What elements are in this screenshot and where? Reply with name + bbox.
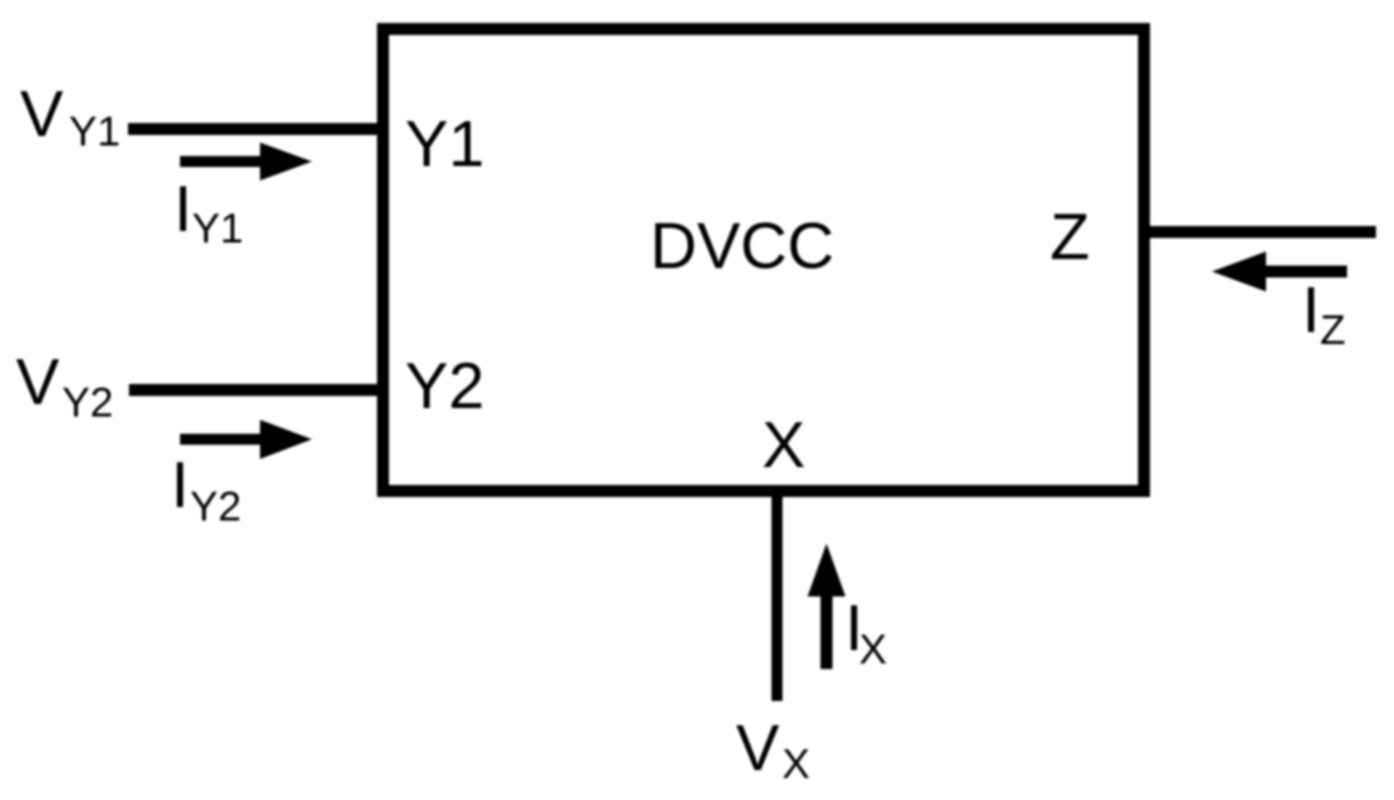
svg-text:Y2: Y2 (190, 483, 241, 530)
current arrow IY1 (180, 143, 312, 181)
svg-text:V: V (20, 77, 64, 150)
svg-text:I: I (171, 448, 189, 521)
svg-text:Y2: Y2 (405, 349, 485, 422)
svg-text:Y1: Y1 (192, 205, 243, 252)
svg-text:X: X (859, 626, 887, 673)
svg-text:V: V (736, 711, 780, 784)
DVCC block U1 (383, 29, 1144, 491)
svg-text:Z: Z (1320, 306, 1346, 353)
current label IZ (1302, 273, 1346, 353)
current label IY2 (171, 448, 241, 530)
svg-text:Y1: Y1 (69, 108, 120, 155)
wire Z output (1144, 226, 1376, 238)
svg-text:X: X (782, 740, 810, 787)
current label IX (845, 591, 887, 673)
svg-text:I: I (174, 172, 192, 245)
current label IY1 (174, 172, 243, 252)
current arrow IX (808, 544, 846, 670)
svg-text:Y1: Y1 (405, 107, 485, 180)
wire X terminal (772, 491, 783, 701)
current arrow IZ (1212, 252, 1347, 292)
node label VY2 (16, 345, 113, 426)
svg-text:Y2: Y2 (62, 379, 113, 426)
svg-text:DVCC: DVCC (650, 209, 834, 282)
wire Y2 input (129, 384, 383, 396)
node label VX (736, 711, 810, 787)
svg-text:Z: Z (1050, 200, 1090, 273)
svg-text:X: X (762, 408, 805, 481)
node label VY1 (20, 77, 120, 155)
wire Y1 input (128, 123, 383, 135)
svg-text:V: V (16, 345, 60, 418)
svg-text:I: I (1302, 273, 1320, 346)
current arrow IY2 (180, 420, 312, 459)
